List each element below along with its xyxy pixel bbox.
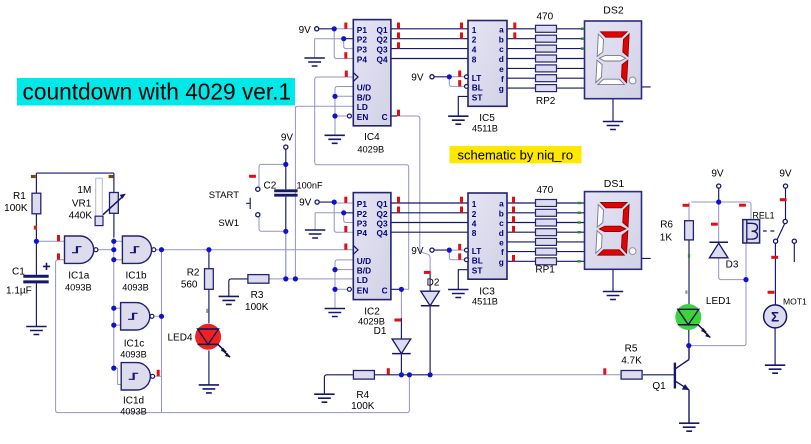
svg-text:100K: 100K bbox=[4, 203, 28, 214]
svg-text:LT: LT bbox=[472, 73, 482, 83]
svg-text:RP2: RP2 bbox=[536, 96, 556, 107]
svg-text:P4: P4 bbox=[357, 228, 368, 238]
svg-text:f: f bbox=[501, 74, 504, 84]
svg-text:Q1: Q1 bbox=[377, 199, 388, 209]
svg-text:IC4: IC4 bbox=[364, 132, 380, 143]
svg-text:560: 560 bbox=[181, 279, 198, 290]
svg-text:IC1c: IC1c bbox=[124, 338, 145, 349]
svg-text:IC5: IC5 bbox=[479, 113, 495, 124]
svg-text:Q4: Q4 bbox=[377, 228, 388, 238]
svg-text:P3: P3 bbox=[357, 45, 368, 55]
svg-text:9V: 9V bbox=[281, 133, 294, 144]
svg-text:EN: EN bbox=[357, 285, 369, 295]
svg-text:f: f bbox=[501, 247, 504, 257]
svg-text:a: a bbox=[499, 199, 504, 209]
svg-text:4.7K: 4.7K bbox=[621, 356, 642, 367]
svg-text:DS1: DS1 bbox=[604, 178, 625, 190]
svg-text:b: b bbox=[499, 34, 504, 44]
svg-text:a: a bbox=[499, 24, 504, 34]
svg-text:EN: EN bbox=[357, 112, 369, 122]
svg-text:2: 2 bbox=[472, 35, 477, 45]
svg-text:9V: 9V bbox=[779, 168, 792, 179]
svg-text:4093B: 4093B bbox=[65, 282, 92, 292]
svg-text:C: C bbox=[382, 112, 388, 122]
svg-text:Q3: Q3 bbox=[377, 219, 388, 229]
svg-text:4029B: 4029B bbox=[358, 317, 385, 327]
svg-text:g: g bbox=[499, 257, 504, 267]
svg-text:100nF: 100nF bbox=[297, 181, 323, 191]
svg-text:4511B: 4511B bbox=[472, 296, 498, 306]
svg-text:D2: D2 bbox=[427, 277, 440, 288]
svg-text:4093B: 4093B bbox=[120, 407, 147, 417]
svg-text:4: 4 bbox=[472, 45, 477, 55]
svg-text:c: c bbox=[499, 44, 504, 54]
svg-text:Q2: Q2 bbox=[377, 35, 388, 45]
svg-text:Q1: Q1 bbox=[652, 381, 666, 392]
svg-text:START: START bbox=[209, 190, 239, 201]
svg-text:IC1b: IC1b bbox=[125, 271, 147, 282]
svg-text:P1: P1 bbox=[357, 25, 368, 35]
svg-text:P4: P4 bbox=[357, 55, 368, 65]
svg-text:470: 470 bbox=[536, 185, 553, 196]
svg-text:D1: D1 bbox=[374, 326, 387, 337]
svg-text:U/D: U/D bbox=[357, 256, 371, 266]
svg-text:schematic by niq_ro: schematic by niq_ro bbox=[458, 147, 574, 162]
svg-text:d: d bbox=[499, 228, 504, 238]
svg-text:LED1: LED1 bbox=[706, 296, 731, 307]
svg-text:BL: BL bbox=[472, 256, 483, 266]
svg-text:R1: R1 bbox=[13, 191, 26, 202]
svg-text:1: 1 bbox=[472, 25, 477, 35]
svg-text:R3: R3 bbox=[251, 290, 264, 301]
svg-text:4029B: 4029B bbox=[357, 144, 384, 154]
svg-text:D3: D3 bbox=[726, 259, 739, 270]
svg-text:440K: 440K bbox=[69, 211, 93, 222]
svg-text:R2: R2 bbox=[187, 267, 200, 278]
svg-text:4093B: 4093B bbox=[122, 282, 149, 292]
svg-text:e: e bbox=[499, 238, 504, 248]
svg-text:B/D: B/D bbox=[357, 92, 371, 102]
svg-text:c: c bbox=[499, 218, 504, 228]
svg-text:P2: P2 bbox=[357, 35, 368, 45]
svg-text:LT: LT bbox=[472, 246, 482, 256]
svg-text:LED4: LED4 bbox=[168, 333, 193, 344]
svg-text:9V: 9V bbox=[411, 246, 424, 257]
svg-text:9V: 9V bbox=[711, 168, 724, 179]
svg-text:9V: 9V bbox=[299, 198, 312, 209]
svg-text:1M: 1M bbox=[77, 185, 91, 196]
svg-text:100K: 100K bbox=[245, 302, 269, 313]
svg-text:4511B: 4511B bbox=[472, 123, 498, 133]
svg-text:Σ: Σ bbox=[771, 309, 779, 324]
svg-text:BL: BL bbox=[472, 82, 483, 92]
svg-text:R6: R6 bbox=[660, 219, 673, 230]
svg-text:VR1: VR1 bbox=[72, 199, 92, 210]
svg-text:P1: P1 bbox=[357, 199, 368, 209]
svg-text:4: 4 bbox=[472, 219, 477, 229]
svg-text:Q4: Q4 bbox=[377, 55, 388, 65]
svg-text:C: C bbox=[382, 285, 388, 295]
svg-text:1: 1 bbox=[472, 199, 477, 209]
svg-text:RP1: RP1 bbox=[535, 264, 555, 275]
svg-text:b: b bbox=[499, 208, 504, 218]
svg-text:2: 2 bbox=[472, 209, 477, 219]
svg-text:g: g bbox=[499, 84, 504, 94]
svg-text:8: 8 bbox=[472, 228, 477, 238]
svg-text:countdown with 4029 ver.1: countdown with 4029 ver.1 bbox=[23, 78, 292, 104]
svg-text:ST: ST bbox=[472, 92, 483, 102]
svg-text:C2: C2 bbox=[264, 181, 277, 192]
svg-text:4093B: 4093B bbox=[120, 349, 147, 359]
svg-text:P3: P3 bbox=[357, 219, 368, 229]
svg-text:Q1: Q1 bbox=[377, 25, 388, 35]
svg-text:470: 470 bbox=[536, 11, 553, 22]
svg-text:Q2: Q2 bbox=[377, 209, 388, 219]
svg-text:DS2: DS2 bbox=[603, 4, 624, 16]
svg-text:9V: 9V bbox=[411, 73, 424, 84]
svg-text:1.1µF: 1.1µF bbox=[6, 285, 32, 296]
svg-text:9V: 9V bbox=[299, 25, 312, 36]
svg-text:1K: 1K bbox=[660, 232, 673, 243]
svg-text:R5: R5 bbox=[625, 344, 638, 355]
svg-text:e: e bbox=[499, 64, 504, 74]
svg-text:ST: ST bbox=[472, 266, 483, 276]
svg-text:LD: LD bbox=[357, 275, 368, 285]
svg-text:LD: LD bbox=[357, 102, 368, 112]
svg-text:R4: R4 bbox=[356, 390, 369, 401]
svg-text:U/D: U/D bbox=[357, 83, 371, 93]
svg-text:100K: 100K bbox=[351, 401, 375, 412]
svg-text:SW1: SW1 bbox=[218, 218, 239, 229]
svg-text:MOT1: MOT1 bbox=[783, 297, 807, 307]
svg-text:IC1a: IC1a bbox=[68, 271, 90, 282]
svg-text:8: 8 bbox=[472, 55, 477, 65]
svg-text:d: d bbox=[499, 54, 504, 64]
svg-text:P2: P2 bbox=[357, 209, 368, 219]
svg-text:IC1d: IC1d bbox=[123, 395, 144, 406]
svg-text:REL1: REL1 bbox=[752, 210, 774, 220]
svg-text:Q3: Q3 bbox=[377, 45, 388, 55]
svg-text:C1: C1 bbox=[12, 266, 25, 277]
